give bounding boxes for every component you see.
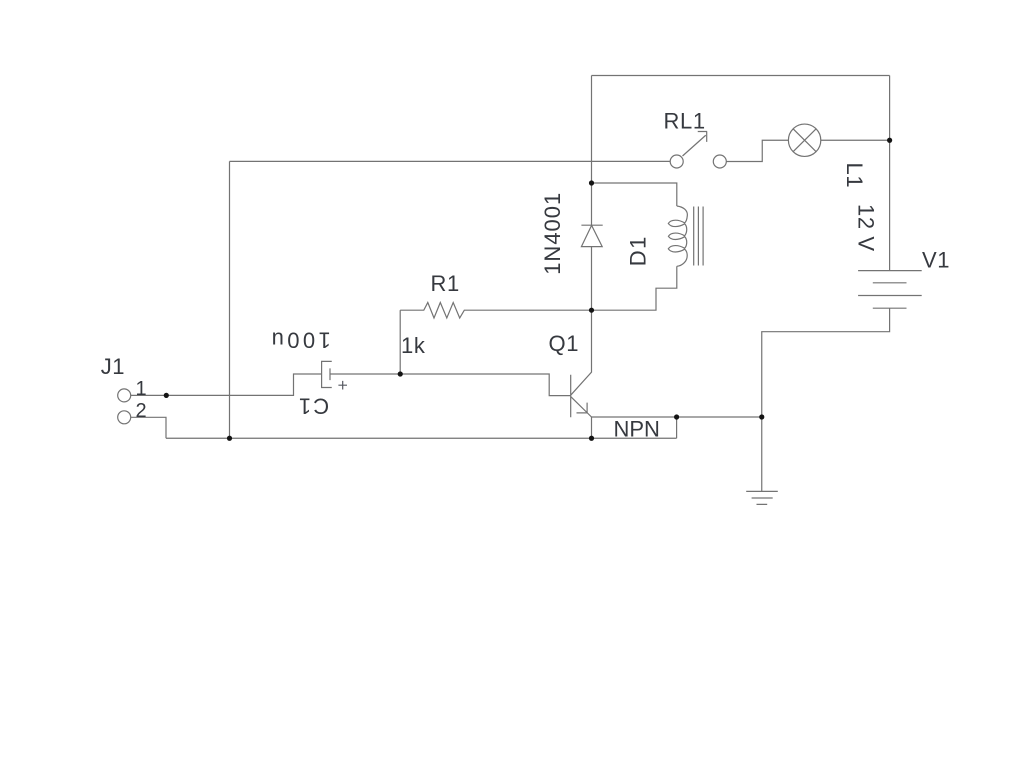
node E dot (227, 436, 232, 441)
svg-text:V1: V1 (922, 248, 950, 273)
wire diode top segment (591, 183, 593, 225)
wire coil bottom to node B (592, 266, 677, 310)
wire emitter stub down (591, 417, 593, 438)
wire NPN box right stub (676, 417, 678, 438)
wire diode bottom segment (591, 247, 593, 311)
svg-text:RL1: RL1 (664, 108, 706, 133)
wire left rect top (230, 160, 671, 162)
svg-text:L1: L1 (842, 163, 867, 189)
connector J1 pin 2 (118, 411, 131, 424)
relay core lines (694, 207, 703, 266)
svg-text:Q1: Q1 (549, 331, 580, 356)
switch RL1 blade (683, 135, 706, 156)
diode D1 (581, 225, 602, 246)
wire emitter to node H (592, 416, 762, 418)
battery V1 (858, 271, 922, 309)
wire switch to lamp (726, 140, 788, 161)
node D dot (164, 393, 169, 398)
switch RL1 right contact (713, 155, 726, 168)
resistor R1 (400, 303, 591, 319)
capacitor plus sign (338, 381, 347, 390)
wire pin2 step (131, 417, 166, 438)
node I dot (887, 138, 892, 143)
wire left rect vertical (229, 161, 231, 438)
ground (746, 491, 778, 504)
svg-text:100u: 100u (268, 328, 331, 353)
svg-text:1: 1 (136, 378, 148, 400)
svg-text:D1: D1 (626, 235, 651, 266)
wire R1 left drop (399, 310, 401, 374)
capacitor C1 (322, 361, 332, 387)
node C dot (398, 371, 403, 376)
wire right rail (889, 76, 891, 271)
svg-text:NPN: NPN (614, 417, 660, 442)
connector J1 pin 1 (118, 389, 131, 402)
transistor emitter arrowhead (577, 403, 588, 414)
relay coil RL1 (inductor petals) (668, 206, 687, 266)
wire node A to coil top (592, 183, 677, 206)
switch RL1 left contact (670, 155, 683, 168)
wire base connection (400, 374, 571, 396)
wire battery bottom (762, 308, 890, 417)
node A dot (589, 180, 594, 185)
node B dot (589, 308, 594, 313)
svg-text:12 V: 12 V (853, 204, 878, 252)
wire capacitor left to pin1 (131, 374, 322, 395)
svg-text:1N4001: 1N4001 (540, 192, 565, 275)
svg-text:2: 2 (136, 400, 148, 422)
transistor Q1 (571, 310, 592, 417)
node F dot (589, 436, 594, 441)
node G dot (674, 414, 679, 419)
wire lamp to right rail (821, 139, 890, 141)
svg-text:R1: R1 (431, 271, 460, 296)
wire left drop to node A (591, 76, 593, 184)
wire capacitor to junction C (330, 373, 400, 375)
svg-text:C1: C1 (297, 394, 329, 419)
wire bottom rail (166, 437, 677, 439)
node H dot (759, 414, 764, 419)
wire ground drop (761, 417, 763, 491)
svg-text:1k: 1k (401, 333, 426, 358)
switch RL1 arrowhead (698, 132, 707, 142)
wire top rail (592, 75, 890, 77)
svg-text:J1: J1 (101, 354, 125, 379)
lamp L1 (788, 124, 820, 156)
